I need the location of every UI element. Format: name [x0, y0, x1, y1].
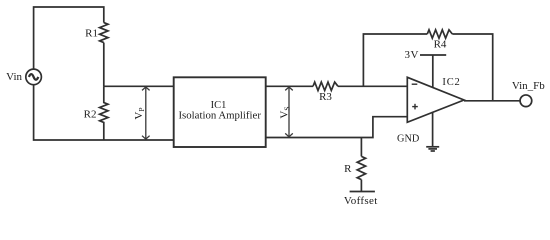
wire R to Voffset terminal bar — [360, 180, 362, 192]
svg-text:VP: VP — [133, 107, 146, 119]
op-amp minus input marker — [412, 83, 418, 85]
svg-text:Vin_Fb: Vin_Fb — [512, 80, 545, 92]
svg-text:Vin: Vin — [6, 71, 22, 83]
wire 3V to op-amp positive supply — [432, 55, 434, 88]
3V supply bar — [420, 54, 446, 56]
wire R3 to op-amp inverting input — [338, 85, 407, 87]
resistor R3 — [313, 82, 338, 90]
voltage source Vin circle — [26, 69, 42, 85]
svg-text:R3: R3 — [319, 91, 332, 103]
terminal Vin_Fb circle — [520, 95, 532, 107]
ground symbol under op-amp — [426, 146, 439, 148]
sine symbol inside source — [29, 74, 38, 80]
wire R4 to output node — [452, 34, 492, 101]
wire op-amp negative supply to ground — [432, 112, 434, 147]
svg-text:GND: GND — [397, 134, 420, 145]
svg-text:Voffset: Voffset — [344, 195, 378, 207]
svg-text:3V: 3V — [405, 49, 419, 61]
wire op-amp output to Vin_Fb terminal — [464, 100, 520, 102]
svg-text:IC2: IC2 — [442, 77, 460, 88]
wire R branch down from bottom wire — [360, 138, 362, 157]
resistor R2 — [100, 86, 108, 140]
wire IC1 output to R3 — [266, 85, 313, 87]
Voffset terminal bar — [350, 191, 375, 193]
resistor R1 — [100, 23, 108, 43]
wire bottom rail from Vin source to IC1 — [34, 85, 174, 140]
wire top-left loop from Vin source to R1 — [34, 7, 104, 69]
svg-text:VS: VS — [279, 106, 292, 118]
svg-text:R2: R2 — [84, 108, 97, 120]
svg-text:R4: R4 — [434, 39, 447, 51]
svg-text:R: R — [344, 163, 352, 175]
op-amp plus input marker — [412, 106, 418, 108]
arrow Vp measurement — [145, 88, 147, 139]
svg-text:Isolation Amplifier: Isolation Amplifier — [178, 110, 261, 122]
svg-text:R1: R1 — [85, 27, 98, 39]
resistor R4 — [427, 30, 452, 38]
wire feedback junction up and across with R4 — [363, 34, 427, 86]
resistor R — [357, 156, 365, 179]
wire IC1 bottom output to op-amp non-inverting input — [266, 117, 408, 138]
wire node to IC1 left input — [104, 85, 174, 87]
op-amp U: IC2 triangle — [407, 77, 464, 122]
wire R1 bottom lead to node — [103, 43, 105, 87]
IC1 box — [174, 77, 266, 147]
arrow Vs measurement — [288, 88, 290, 137]
